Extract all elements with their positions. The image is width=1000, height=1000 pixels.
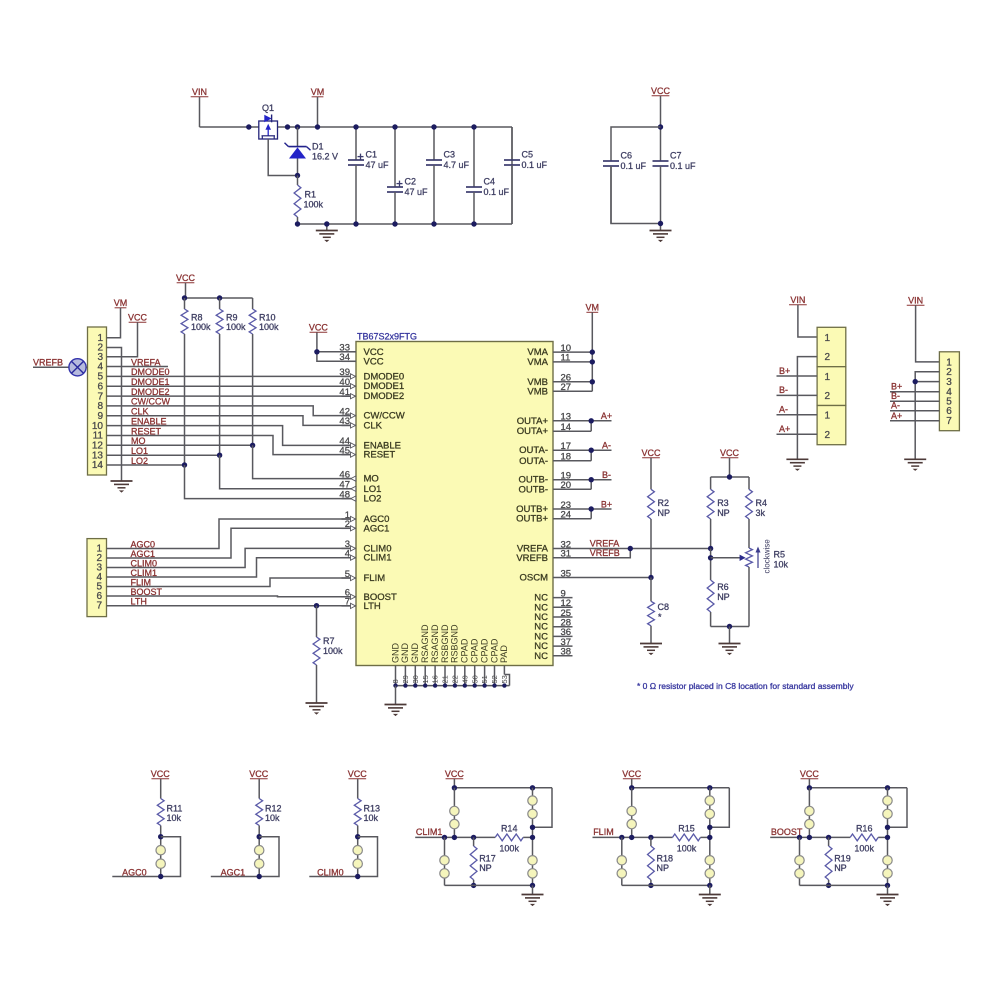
node VCC (R11 jumper) [151, 769, 171, 779]
svg-text:CLK: CLK [364, 420, 383, 431]
junction ground (BOOST) [885, 883, 890, 888]
svg-text:OUTA-: OUTA- [519, 445, 548, 456]
node AGC1 net label [131, 549, 156, 559]
connector J2 7-pin header body [87, 539, 107, 617]
wire lower-left jumper (FLIM) [621, 837, 623, 885]
ground (main power rail) [316, 224, 338, 242]
junction row-branch (FLIM) [619, 835, 624, 840]
U1 pin 37 NC [534, 637, 572, 652]
junction pot ground tap [727, 624, 732, 629]
svg-text:NP: NP [834, 863, 847, 873]
resistor R14 100k [495, 823, 532, 853]
jumper pads (CLIM0) [353, 846, 362, 869]
junction bottom bus pin 50 [473, 683, 477, 687]
U1 pin 36 NC [534, 627, 572, 642]
node VIN (motor connector 2) [907, 296, 925, 306]
wire left jumper column (FLIM) [631, 788, 633, 838]
connector J3 block 3 [817, 406, 846, 445]
junction C4 bottom on rail [471, 221, 476, 226]
svg-text:OUTB+: OUTB+ [516, 514, 548, 525]
svg-text:NC: NC [534, 651, 548, 662]
junction bypass joins column (BOOST) [885, 825, 890, 830]
node VCC (connector) [128, 313, 148, 323]
svg-text:GND: GND [390, 643, 400, 664]
U1 pin 39 DMODE0 [339, 367, 404, 382]
node VCC (R12 jumper) [249, 769, 269, 779]
svg-text:48: 48 [339, 489, 350, 500]
junction B+ [589, 506, 594, 511]
U1 pin 12 NC [534, 598, 572, 613]
jumper pads right-top (CLIM1) [528, 796, 537, 819]
svg-text:VREFB: VREFB [33, 358, 63, 368]
wire Q1 gate loop [268, 139, 297, 176]
svg-text:53: 53 [500, 675, 509, 683]
ground (J3) [786, 459, 808, 471]
junction B- [589, 477, 594, 482]
wire U1 bottom ground bus [396, 675, 510, 686]
U1 pin 32 VREFA [517, 539, 573, 554]
junction C1 bottom on rail [353, 221, 358, 226]
junction R16 right (BOOST) [885, 835, 890, 840]
wire A+ to J3 [777, 433, 818, 435]
junction bypass joins column (CLIM1) [530, 825, 535, 830]
connector J1 14-pin header body [88, 327, 107, 475]
node VIN (motor connector 1) [789, 295, 807, 305]
wire pot ground stem [729, 627, 731, 644]
svg-text:GND: GND [400, 643, 410, 664]
node ENABLE net label [131, 416, 167, 426]
resistor R17 NP [470, 837, 496, 885]
svg-text:B-: B- [779, 385, 788, 395]
junction VCC pin33 [314, 349, 319, 354]
connector J4 pin numbers [946, 357, 952, 427]
wire right rail drop (C5 column) [511, 127, 513, 224]
jumper pads right-top (FLIM) [705, 796, 714, 819]
junction R15 right (FLIM) [707, 835, 712, 840]
svg-text:R11: R11 [167, 804, 183, 814]
svg-text:* 0 Ω resistor placed in C8 lo: * 0 Ω resistor placed in C8 location for… [637, 681, 854, 691]
U1 pin 33 VCC [339, 343, 383, 358]
svg-text:RSAGND: RSAGND [430, 624, 440, 663]
svg-text:VMA: VMA [527, 357, 548, 368]
ground (C6/C7) [650, 231, 672, 243]
svg-text:CPAD: CPAD [460, 638, 470, 663]
svg-text:VIN: VIN [908, 296, 923, 306]
wire LO2 to U1 pin 48 [185, 465, 352, 499]
svg-text:VREFB: VREFB [516, 553, 548, 564]
node CLIM0 net label [317, 867, 344, 877]
junction row-Rv (FLIM) [648, 835, 653, 840]
wire bypass loop (CLIM1) [533, 788, 553, 828]
svg-text:C3: C3 [444, 150, 456, 160]
wire LO2 row [107, 464, 185, 466]
junction bottom bus pin 49 [463, 683, 467, 687]
node LTH net label [131, 596, 147, 606]
junction bottom bus pin 8 [393, 683, 397, 687]
connector J2 pin numbers 1-7 [96, 544, 102, 612]
junction R17 bottom [471, 883, 476, 888]
U1 pin 41 DMODE2 [339, 387, 404, 402]
U1 pin 34 VCC [339, 352, 383, 367]
node BOOST net label [771, 827, 803, 837]
junction jumper bottom (AGC1) [257, 874, 262, 879]
svg-text:4: 4 [345, 549, 350, 560]
svg-text:20: 20 [561, 480, 572, 491]
svg-text:CPAD: CPAD [470, 638, 480, 663]
svg-text:R7: R7 [323, 636, 335, 646]
U1 pin 40 DMODE1 [339, 377, 404, 392]
svg-text:AGC1: AGC1 [364, 523, 390, 534]
node CLIM0 net label [131, 558, 158, 568]
svg-text:100k: 100k [304, 200, 324, 210]
wire FLIM to U1 pin 5 [107, 578, 352, 587]
svg-text:B+: B+ [891, 382, 902, 392]
svg-text:C8: C8 [658, 602, 670, 612]
U1 pin 2 AGC1 [342, 519, 390, 534]
U1 pin 26 VMB [527, 373, 572, 388]
wire A+ to J4 pin 7 [890, 420, 939, 422]
svg-text:49: 49 [460, 675, 469, 683]
junction bypass joins column (FLIM) [707, 825, 712, 830]
svg-text:R1: R1 [305, 190, 317, 200]
svg-text:NP: NP [717, 592, 730, 602]
node BOOST net label [131, 587, 163, 597]
node FLIM net label [593, 827, 614, 837]
node VCC (vref pot) [720, 448, 740, 458]
jumper pads right-bottom (CLIM1) [528, 856, 537, 879]
svg-text:10k: 10k [167, 813, 182, 823]
svg-text:OUTB-: OUTB- [518, 484, 548, 495]
node VCC (CLIM1 network) [445, 769, 465, 779]
wire LO1 row [107, 454, 220, 456]
svg-text:7: 7 [345, 597, 350, 608]
svg-text:PAD: PAD [499, 645, 509, 663]
node CLIM1 net label [131, 568, 158, 578]
wire C6/C7 bottom link [611, 166, 661, 224]
node DMODE2 net label [131, 387, 170, 397]
node B- net label [602, 470, 611, 480]
junction jumper bottom (AGC0) [158, 874, 163, 879]
R5 clockwise arrow [756, 539, 772, 574]
transistor Q1 (reverse-protection MOSFET) [259, 103, 278, 139]
svg-text:7: 7 [946, 416, 952, 427]
svg-text:VM: VM [311, 87, 325, 97]
wire VREFA row [573, 548, 711, 550]
U1 pin 23 OUTB+ [516, 500, 572, 515]
junction R8 top [182, 295, 187, 300]
resistor R7 100k [313, 606, 343, 703]
ground (vref pot) [719, 644, 741, 656]
wire VIN stem [199, 97, 201, 127]
svg-text:R15: R15 [678, 823, 695, 833]
svg-text:FLIM: FLIM [593, 827, 614, 837]
capacitor C6 0.1 uF [603, 151, 647, 224]
svg-text:C1: C1 [366, 150, 378, 160]
wire J1 pin 2 to ground [107, 348, 122, 482]
svg-text:R14: R14 [501, 823, 518, 833]
svg-text:RSAGND: RSAGND [420, 624, 430, 663]
svg-text:47 uF: 47 uF [405, 187, 429, 197]
svg-text:45: 45 [339, 445, 350, 456]
svg-text:17: 17 [561, 441, 572, 452]
svg-text:VM: VM [114, 298, 128, 308]
node B+ label (J3) [779, 366, 790, 376]
svg-text:100k: 100k [191, 322, 211, 332]
diode D1 zener 16.2 V [285, 127, 339, 176]
svg-text:VCC: VCC [176, 273, 196, 283]
U1 pin 42 CW/CCW [339, 406, 404, 421]
wire RESET to U1 pin 45 [107, 436, 352, 455]
svg-text:CPAD: CPAD [489, 638, 499, 663]
svg-text:R12: R12 [265, 804, 282, 814]
node A+ net label [601, 411, 612, 421]
wire LO1 to U1 pin 47 [220, 455, 351, 489]
svg-text:RESET: RESET [364, 450, 396, 461]
node VREFB port symbol [33, 358, 88, 376]
U1 pin 4 CLIM1 [342, 549, 392, 564]
svg-text:CLIM1: CLIM1 [364, 553, 392, 564]
wire BOOST row [770, 836, 850, 838]
junction row-left-col (CLIM1) [452, 835, 457, 840]
svg-text:VCC: VCC [309, 323, 329, 333]
U1 pin 27 VMB [527, 382, 572, 397]
wire FLIM row [593, 836, 673, 838]
wire lower-left jumper (CLIM1) [444, 837, 446, 885]
svg-text:LTH: LTH [364, 601, 381, 612]
junction C2 top on bus [392, 124, 397, 129]
svg-text:AGC1: AGC1 [221, 867, 246, 877]
wire VCC to J1 pin 3 [107, 322, 138, 357]
svg-text:3k: 3k [756, 508, 766, 518]
junction D1/R1/gate node [295, 173, 300, 178]
svg-text:RSBGND: RSBGND [440, 624, 450, 663]
node VM (top power label) [311, 87, 325, 97]
U1 pin 30 GND [410, 643, 420, 686]
wire DMODE0 to U1 pin 39 [107, 375, 352, 377]
U1 pin 9 NC [534, 588, 572, 603]
wire right column (FLIM) [709, 788, 711, 886]
connector J3 block 1 [817, 327, 846, 366]
svg-text:A-: A- [779, 405, 788, 415]
node RESET net label [131, 426, 162, 436]
U1 pin 20 OUTB- [518, 480, 572, 495]
wire A- to J3 [777, 414, 818, 416]
wire top rail (CLIM1) [454, 787, 552, 789]
svg-text:LTH: LTH [131, 596, 147, 606]
svg-text:8: 8 [391, 679, 400, 683]
svg-text:R9: R9 [226, 313, 238, 323]
junction D1 tap on bus [295, 124, 300, 129]
ground (J1 pin 2) [111, 481, 133, 493]
svg-text:RSBGND: RSBGND [450, 624, 460, 663]
svg-text:31: 31 [561, 549, 572, 560]
ground (FLIM network) [699, 885, 721, 906]
wire bottom rail (FLIM) [622, 884, 710, 886]
wire J3 pin 2 to ground [797, 357, 817, 460]
junction bottom bus pin 30 [413, 683, 417, 687]
capacitor C8 (0 ohm resistor location) [648, 578, 669, 644]
wire B- to J4 pin 5 [890, 400, 939, 402]
U1 pin 28 NC [534, 618, 572, 633]
junction C4 top on bus [471, 124, 476, 129]
node CW/CCW net label [131, 397, 170, 407]
U1 pin 43 CLK [339, 416, 382, 431]
svg-text:OUTA+: OUTA+ [517, 426, 549, 437]
wire pot bottom rail [711, 626, 749, 628]
svg-text:VCC: VCC [720, 448, 740, 458]
svg-text:VIN: VIN [790, 295, 805, 305]
junction VM pin10 [590, 349, 595, 354]
svg-text:1: 1 [825, 372, 831, 383]
svg-text:VCC: VCC [128, 313, 148, 323]
wire AGC1 to U1 pin 2 [107, 528, 352, 558]
node B+ net label [601, 499, 612, 509]
svg-text:100k: 100k [323, 646, 343, 656]
wire left jumper column (CLIM1) [453, 788, 455, 838]
svg-text:51: 51 [480, 675, 489, 683]
node VCC (R2) [641, 448, 661, 458]
wire VCC to U1 pin 33/34 [317, 333, 356, 362]
node VCC (pull-ups R8-R10) [176, 273, 196, 283]
junction R12 / jumper top [257, 834, 262, 839]
svg-text:VMB: VMB [527, 386, 548, 397]
svg-text:TB67S2x9FTG: TB67S2x9FTG [357, 332, 417, 342]
svg-text:10k: 10k [265, 813, 280, 823]
wire B- to J3 [777, 394, 818, 396]
wire VCC stem (BOOST) [808, 779, 810, 788]
node VREFB net label (IC right) [590, 548, 620, 558]
junction bottom bus pin 52 [492, 683, 496, 687]
wire left jumper column (BOOST) [808, 788, 810, 838]
svg-text:100k: 100k [677, 844, 697, 854]
resistor R12 10k [256, 779, 282, 877]
capacitor C2 47 uF [387, 127, 428, 224]
junction R10 / MO [250, 443, 255, 448]
svg-text:VCC: VCC [364, 356, 384, 367]
junction R9 top [217, 295, 222, 300]
wire bottom rail (CLIM1) [445, 884, 533, 886]
node LO1 net label [131, 446, 148, 456]
junction jumper bottom (CLIM0) [355, 874, 360, 879]
junction R8 / LO2 [182, 462, 187, 467]
svg-text:0.1 uF: 0.1 uF [522, 160, 548, 170]
U1 pin 7 LTH [342, 597, 381, 612]
svg-text:NP: NP [717, 508, 730, 518]
wire CLK to U1 pin 43 [107, 416, 352, 426]
svg-text:2: 2 [825, 352, 831, 363]
junction VCC rail right (BOOST) [885, 785, 890, 790]
svg-text:11: 11 [561, 353, 571, 364]
svg-text:0.1 uF: 0.1 uF [670, 161, 696, 171]
junction A- [589, 448, 594, 453]
svg-text:22: 22 [451, 675, 460, 683]
svg-text:R4: R4 [756, 498, 768, 508]
wire right column (BOOST) [887, 788, 889, 886]
svg-text:GND: GND [410, 643, 420, 664]
wire VM power bus [200, 126, 513, 128]
U1 pin 53 PAD [499, 645, 509, 684]
svg-text:43: 43 [339, 416, 350, 427]
node AGC0 net label [131, 539, 156, 549]
svg-text:14: 14 [561, 422, 572, 433]
svg-text:24: 24 [561, 510, 572, 521]
svg-text:*: * [658, 612, 662, 622]
capacitor C5 0.1 uF [504, 127, 548, 224]
U1 pin 38 NC [534, 647, 572, 662]
junction ground tap on rail [324, 221, 329, 226]
junction R18 bottom [648, 883, 653, 888]
ground (CLIM1 network) [522, 885, 544, 906]
resistor R11 10k [157, 779, 182, 877]
junction VREFA/VREFB tie [628, 546, 633, 551]
junction VCC rail left (BOOST) [807, 785, 812, 790]
junction bottom bus pin 29 [403, 683, 407, 687]
potentiometer R5 10k [711, 548, 789, 627]
junction VCC rail right (FLIM) [707, 785, 712, 790]
svg-text:13: 13 [561, 412, 572, 423]
svg-text:10k: 10k [774, 560, 789, 570]
svg-text:34: 34 [339, 352, 350, 363]
svg-text:16.2 V: 16.2 V [312, 152, 338, 162]
svg-text:VCC: VCC [800, 769, 820, 779]
junction C3 top on bus [431, 124, 436, 129]
svg-text:VCC: VCC [151, 769, 171, 779]
node MO net label [131, 436, 146, 446]
svg-text:A-: A- [891, 401, 900, 411]
svg-text:VREFB: VREFB [590, 548, 620, 558]
svg-text:52: 52 [490, 675, 499, 683]
svg-text:38: 38 [561, 647, 572, 658]
wire VCC stem (pot) [729, 458, 731, 477]
U1 pin 35 OSCM [520, 568, 573, 583]
op-amp U1 TB67S2x9FTG body [356, 332, 553, 666]
svg-text:CLIM0: CLIM0 [317, 867, 344, 877]
U1 pin 21 RSBGND [440, 624, 450, 686]
node VCC (C6/C7 decoupling) [651, 86, 671, 96]
node VCC (R13 jumper) [348, 769, 368, 779]
node CLIM1 net label [416, 827, 443, 837]
junction R1 on ground rail [295, 221, 300, 226]
svg-text:15: 15 [421, 675, 430, 683]
node A- label (J3) [779, 405, 788, 415]
node A+ label (J4) [891, 411, 902, 421]
U1 pin 15 RSAGND [420, 624, 430, 686]
wire A+ output pair [573, 421, 612, 431]
U1 pin 45 RESET [339, 445, 395, 460]
resistor R1 100k [294, 176, 323, 225]
jumper pads left-top (BOOST) [805, 806, 814, 829]
wire ENABLE to U1 pin 44 [107, 426, 352, 446]
wire B+ to J3 [777, 375, 818, 377]
junction C6/C7 bottom [658, 221, 663, 226]
jumper pads (AGC0) [156, 846, 165, 869]
junction ground (FLIM) [707, 883, 712, 888]
svg-text:A+: A+ [601, 411, 612, 421]
junction VCC rail left (CLIM1) [452, 785, 457, 790]
node AGC1 net label [221, 867, 246, 877]
svg-text:NP: NP [658, 508, 671, 518]
junction Q1 source on bus [246, 124, 251, 129]
svg-text:R2: R2 [658, 498, 670, 508]
node VM (connector) [114, 298, 128, 308]
wire BOOST to U1 pin 6 [107, 595, 352, 598]
resistor R13 10k [354, 779, 380, 877]
junction VM pin11 [590, 359, 595, 364]
wire VMB pin27 link [573, 390, 593, 392]
svg-text:VM: VM [586, 303, 600, 313]
connector J3 block 2 [817, 367, 846, 406]
wire A- output pair [573, 450, 612, 461]
